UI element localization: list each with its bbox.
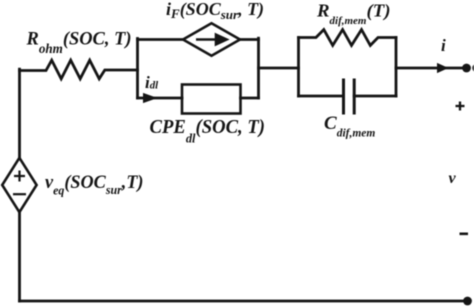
current source U1 (i_F) diamond [183,23,240,56]
wire: current source to right vertical [240,38,259,41]
svg-text:Rohm(SOC, T): Rohm(SOC, T) [26,29,132,57]
svg-text:v: v [449,170,457,187]
wire: bottom branch to CPE with i_dl direction [138,97,183,100]
label - (terminal polarity) [460,233,469,236]
svg-text:Rdif,mem(T): Rdif,mem(T) [316,1,391,28]
wire: junction vertical at node between branches [136,39,139,99]
wire: left vertical from source bottom to ground rail [18,212,21,301]
svg-text:idl: idl [145,73,158,92]
capacitor C1 right plate [353,80,356,113]
voltage source polarity marks [13,171,26,195]
node: negative terminal dot [463,297,472,306]
capacitor C1 (C_dif,mem) left plate [342,80,345,113]
wire: output lead to positive terminal [396,67,464,70]
resistor R1 (R_ohm) zigzag on main wire [20,60,138,79]
svg-text:CPEdl(SOC, T): CPEdl(SOC, T) [150,117,266,146]
CPE_dl box element [182,85,241,114]
resistor R2 (R_dif,mem) zigzag top branch [299,30,397,46]
wire: top branch to current source [138,38,184,41]
wire: right vertical of RC pair [395,38,398,97]
wire: left vertical from main wire down to source top [18,69,21,159]
node: positive terminal dot [462,64,471,73]
arrowhead: i_dl current direction [143,93,158,103]
svg-text:i: i [441,36,446,55]
wire: bottom return rail [20,300,467,303]
voltage source U2 (v_eq) diamond [2,158,36,212]
svg-text:Cdif,mem: Cdif,mem [324,113,375,140]
wire: capacitor to right vertical [354,95,396,98]
arrowhead: output current i [437,63,449,73]
label + (terminal polarity) [456,102,465,111]
svg-text:veq(SOCsur,T): veq(SOCsur,T) [45,172,144,198]
node: clipped terminal mark at right edge [472,64,474,72]
svg-text:iF(SOCsur, T): iF(SOCsur, T) [166,0,264,22]
wire: right vertical of first parallel pair [257,38,260,98]
wire: bottom branch to capacitor left plate [299,95,344,98]
current source arrow symbol [196,35,227,45]
wire: CPE to right vertical [241,97,259,100]
wire: middle link between parallel sections [259,67,299,70]
wire: left vertical of RC pair [297,38,300,97]
